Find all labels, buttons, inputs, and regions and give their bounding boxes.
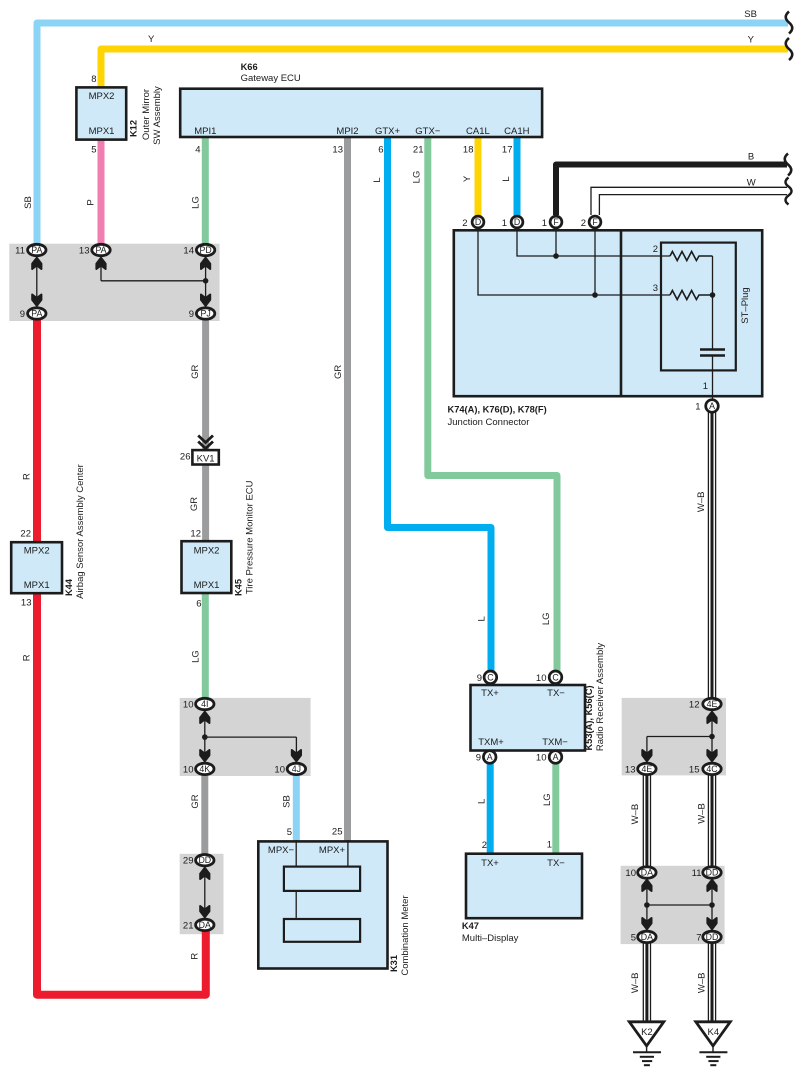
svg-text:LG: LG bbox=[542, 793, 553, 806]
svg-text:25: 25 bbox=[332, 827, 343, 838]
svg-text:DA: DA bbox=[641, 868, 653, 878]
connector ovals band C bbox=[196, 855, 214, 931]
capacitor bbox=[700, 348, 725, 350]
svg-text:TX+: TX+ bbox=[481, 858, 499, 869]
svg-text:2: 2 bbox=[653, 244, 658, 255]
svg-text:Combination Meter: Combination Meter bbox=[400, 895, 411, 975]
svg-text:K47: K47 bbox=[462, 921, 479, 931]
svg-text:Tire Pressure Monitor ECU: Tire Pressure Monitor ECU bbox=[245, 480, 256, 594]
svg-text:TXM+: TXM+ bbox=[478, 737, 504, 748]
svg-text:1: 1 bbox=[703, 381, 708, 392]
connector band E (DA/DD) bbox=[621, 866, 725, 944]
wire L (CA1H to 1D) bbox=[514, 137, 521, 217]
svg-text:B: B bbox=[748, 152, 754, 163]
divider bbox=[620, 230, 623, 396]
svg-text:D: D bbox=[475, 217, 481, 227]
svg-text:11: 11 bbox=[15, 246, 25, 257]
svg-text:LG: LG bbox=[191, 650, 202, 663]
svg-text:1: 1 bbox=[547, 840, 552, 851]
svg-text:4E: 4E bbox=[707, 699, 718, 709]
wire W-B (13 4E to 10 DA) bbox=[643, 774, 650, 868]
wire W-B (5 DA to ground K2) bbox=[643, 942, 650, 1022]
svg-text:10: 10 bbox=[183, 764, 194, 775]
svg-text:L: L bbox=[372, 177, 383, 182]
svg-text:R: R bbox=[189, 953, 200, 960]
svg-text:10: 10 bbox=[625, 868, 636, 879]
svg-text:6: 6 bbox=[378, 145, 383, 156]
ground K2 bbox=[629, 1022, 664, 1065]
svg-text:GR: GR bbox=[333, 365, 344, 379]
svg-text:2: 2 bbox=[462, 218, 467, 229]
svg-text:LG: LG bbox=[412, 171, 423, 184]
wire R (9PA to K44 pin22) bbox=[33, 318, 41, 542]
svg-text:4E: 4E bbox=[642, 764, 653, 774]
svg-text:MPX−: MPX− bbox=[268, 845, 295, 856]
svg-text:K4: K4 bbox=[707, 1027, 719, 1038]
connector ovals band D bbox=[638, 698, 722, 774]
resistor row3 bbox=[670, 291, 713, 300]
svg-text:13: 13 bbox=[625, 764, 636, 775]
wire W-B (1A to 12 4E) bbox=[708, 412, 715, 700]
link arrows band D: 12 4E to 13 4E / 15 4C bbox=[642, 712, 717, 762]
svg-text:9: 9 bbox=[477, 673, 482, 684]
svg-text:MPI2: MPI2 bbox=[336, 126, 358, 137]
svg-text:K45: K45 bbox=[234, 579, 244, 596]
svg-text:4I: 4I bbox=[201, 699, 208, 709]
svg-text:L: L bbox=[476, 799, 487, 804]
connector circles D/F on junction box bbox=[472, 216, 601, 228]
svg-text:21: 21 bbox=[183, 920, 194, 931]
link arrows band B: 4I to 4K and 4J bbox=[200, 712, 301, 762]
svg-text:9: 9 bbox=[189, 309, 194, 320]
svg-text:22: 22 bbox=[20, 529, 31, 540]
svg-text:7: 7 bbox=[696, 932, 701, 943]
svg-text:Gateway ECU: Gateway ECU bbox=[241, 73, 301, 84]
svg-text:K2: K2 bbox=[641, 1027, 653, 1038]
svg-text:2: 2 bbox=[482, 840, 487, 851]
svg-text:2: 2 bbox=[581, 218, 586, 229]
internal wire row2 (D1,F1 to resistor) bbox=[517, 228, 670, 256]
svg-text:L: L bbox=[501, 176, 512, 181]
wire B (1F to right break) bbox=[556, 165, 787, 216]
svg-text:K74(A), K76(D), K78(F): K74(A), K76(D), K78(F) bbox=[448, 405, 547, 415]
box K47 Multi-Display bbox=[466, 854, 582, 919]
svg-text:Airbag Sensor Assembly Center: Airbag Sensor Assembly Center bbox=[75, 464, 86, 599]
svg-text:TX−: TX− bbox=[547, 688, 565, 699]
svg-text:CA1L: CA1L bbox=[466, 126, 490, 137]
svg-text:MPX2: MPX2 bbox=[24, 546, 50, 557]
connector band C (DD/DA) bbox=[180, 854, 224, 934]
box K45 Tire Pressure Monitor ECU bbox=[182, 541, 232, 593]
connector KV1 bbox=[192, 450, 218, 464]
svg-text:MPX1: MPX1 bbox=[194, 580, 220, 591]
svg-text:DD: DD bbox=[706, 868, 719, 878]
connector band D (4E/4C) bbox=[622, 698, 726, 776]
connector circles C/A on radio box bbox=[483, 671, 561, 763]
svg-text:GR: GR bbox=[190, 365, 201, 379]
wire Y (CA1L to 2D) bbox=[475, 137, 482, 217]
svg-text:W–B: W–B bbox=[696, 492, 707, 513]
svg-text:3: 3 bbox=[653, 283, 658, 294]
link arrows band A: 14PD to 9PJ bbox=[201, 258, 210, 307]
svg-text:W–B: W–B bbox=[697, 973, 708, 994]
svg-text:GTX−: GTX− bbox=[415, 126, 441, 137]
svg-text:21: 21 bbox=[413, 145, 424, 156]
svg-text:SB: SB bbox=[744, 9, 757, 20]
svg-text:MPI1: MPI1 bbox=[194, 126, 216, 137]
svg-text:Junction Connector: Junction Connector bbox=[448, 417, 530, 428]
svg-text:18: 18 bbox=[463, 145, 474, 156]
svg-text:K31: K31 bbox=[389, 955, 399, 972]
svg-text:13: 13 bbox=[79, 246, 90, 257]
svg-text:5: 5 bbox=[91, 145, 96, 156]
internal wire row3 (D2,F2 to resistor) bbox=[478, 228, 670, 295]
svg-text:8: 8 bbox=[91, 74, 96, 85]
svg-text:12: 12 bbox=[190, 529, 201, 540]
svg-text:PA: PA bbox=[95, 245, 106, 255]
wire GR (9PJ to KV1) bbox=[202, 318, 209, 452]
svg-text:GTX+: GTX+ bbox=[375, 126, 401, 137]
wire L (GTX+ to 9C) bbox=[388, 137, 492, 673]
svg-text:29: 29 bbox=[183, 856, 194, 867]
svg-text:PD: PD bbox=[199, 245, 211, 255]
svg-text:12: 12 bbox=[689, 700, 700, 711]
wire LG (10A to K47 pin1) bbox=[552, 763, 559, 855]
break squiggle Y bbox=[786, 38, 793, 60]
svg-text:4: 4 bbox=[195, 145, 200, 156]
svg-text:1: 1 bbox=[502, 218, 507, 229]
svg-text:W: W bbox=[747, 178, 756, 189]
link arrows band C: 29DD to 21DA bbox=[200, 868, 209, 918]
svg-text:17: 17 bbox=[502, 145, 513, 156]
svg-text:10: 10 bbox=[536, 753, 547, 764]
wire P (K12 to 13PA) bbox=[98, 140, 105, 246]
svg-text:LG: LG bbox=[191, 196, 202, 209]
svg-text:ST–Plug: ST–Plug bbox=[740, 287, 751, 323]
svg-text:TX+: TX+ bbox=[481, 688, 499, 699]
wire Y top bbox=[101, 49, 788, 88]
svg-text:K12: K12 bbox=[129, 120, 139, 137]
wire GR (MPI2 to K31 pin25) bbox=[344, 137, 351, 842]
svg-text:DD: DD bbox=[198, 855, 211, 865]
connector ovals band A bbox=[28, 244, 215, 319]
svg-text:1: 1 bbox=[542, 218, 547, 229]
vertical bus to capacitor bbox=[712, 256, 714, 349]
svg-text:Y: Y bbox=[462, 175, 473, 182]
svg-text:26: 26 bbox=[180, 452, 191, 463]
svg-text:Y: Y bbox=[148, 34, 155, 45]
svg-text:10: 10 bbox=[183, 700, 194, 711]
svg-text:C: C bbox=[552, 672, 559, 682]
svg-text:P: P bbox=[86, 199, 97, 205]
box K66 Gateway ECU bbox=[180, 89, 542, 137]
svg-text:SW Assembly: SW Assembly bbox=[152, 86, 163, 145]
svg-text:W–B: W–B bbox=[630, 804, 641, 825]
link arrows band A: 11PA to 9PA bbox=[32, 258, 41, 307]
svg-text:14: 14 bbox=[183, 246, 194, 257]
svg-text:MPX1: MPX1 bbox=[24, 580, 50, 591]
svg-text:10: 10 bbox=[536, 673, 547, 684]
box K53 Radio Receiver Assembly bbox=[471, 685, 586, 751]
svg-text:5: 5 bbox=[631, 932, 636, 943]
svg-text:DD: DD bbox=[706, 932, 719, 942]
svg-text:L: L bbox=[477, 616, 488, 621]
link arrows band A: 13PA to node on PD line bbox=[96, 258, 208, 284]
svg-text:13: 13 bbox=[332, 145, 343, 156]
svg-text:D: D bbox=[514, 217, 520, 227]
box K44 Airbag Sensor Assembly Center bbox=[11, 542, 62, 593]
svg-text:TXM−: TXM− bbox=[542, 737, 568, 748]
wire SB (4J to K31 pin5) bbox=[293, 775, 300, 842]
svg-text:LG: LG bbox=[541, 612, 552, 625]
ground K4 bbox=[696, 1022, 731, 1065]
svg-text:R: R bbox=[21, 473, 32, 480]
wire LG (K45 pin6 to 4I) bbox=[202, 593, 209, 700]
svg-text:MPX2: MPX2 bbox=[194, 546, 220, 557]
connector band B (4I/4K/4J) bbox=[180, 698, 311, 776]
svg-text:9: 9 bbox=[20, 309, 25, 320]
svg-text:W–B: W–B bbox=[697, 803, 708, 824]
svg-text:Outer Mirror: Outer Mirror bbox=[141, 89, 152, 140]
svg-text:A: A bbox=[709, 401, 715, 411]
connector ovals band E bbox=[638, 867, 722, 943]
svg-text:R: R bbox=[21, 654, 32, 661]
svg-text:SB: SB bbox=[282, 795, 293, 808]
connector circle 1A below junction box bbox=[706, 400, 719, 413]
wire GR (KV1 to K45 pin12) bbox=[202, 463, 209, 542]
svg-text:A: A bbox=[487, 752, 493, 762]
svg-text:GR: GR bbox=[190, 794, 201, 808]
svg-text:F: F bbox=[553, 217, 559, 227]
svg-text:W–B: W–B bbox=[630, 973, 641, 994]
svg-text:1: 1 bbox=[695, 402, 700, 413]
box K12 Outer Mirror SW Assembly bbox=[76, 87, 126, 139]
wire LG (GTX- to 10C) bbox=[428, 137, 557, 673]
svg-text:CA1H: CA1H bbox=[504, 126, 529, 137]
svg-text:11: 11 bbox=[692, 868, 702, 879]
box K31 Combination Meter bbox=[258, 840, 387, 969]
svg-text:K44: K44 bbox=[64, 578, 74, 596]
svg-text:K53(A), K56(C): K53(A), K56(C) bbox=[584, 685, 594, 750]
ST-Plug inner box bbox=[661, 243, 736, 371]
svg-text:15: 15 bbox=[689, 764, 700, 775]
connector ovals band B bbox=[196, 698, 306, 774]
svg-text:4J: 4J bbox=[292, 764, 301, 774]
svg-text:Radio Receiver Assembly: Radio Receiver Assembly bbox=[595, 643, 606, 751]
svg-text:PJ: PJ bbox=[200, 309, 210, 319]
wire L (9A to K47 pin2) bbox=[487, 763, 494, 855]
resistor row2 bbox=[670, 252, 713, 261]
svg-text:9: 9 bbox=[476, 753, 481, 764]
wire W-B (15 4C to 11 DD) bbox=[708, 774, 715, 868]
svg-text:6: 6 bbox=[196, 599, 201, 610]
wire LG (MPI1 to 14PD) bbox=[202, 137, 209, 246]
wire SB top bbox=[37, 23, 788, 246]
svg-text:SB: SB bbox=[23, 196, 34, 209]
svg-text:10: 10 bbox=[274, 764, 285, 775]
svg-text:DA: DA bbox=[199, 920, 211, 930]
svg-text:KV1: KV1 bbox=[197, 454, 215, 465]
wire W-B (7 DD to ground K4) bbox=[708, 942, 715, 1022]
svg-text:GR: GR bbox=[189, 497, 200, 511]
svg-text:K66: K66 bbox=[241, 62, 258, 72]
wire R (K44 pin13 to 21DA) bbox=[37, 593, 206, 995]
svg-text:C: C bbox=[487, 672, 494, 682]
svg-text:4C: 4C bbox=[706, 764, 718, 774]
svg-text:Y: Y bbox=[748, 34, 755, 45]
svg-text:MPX+: MPX+ bbox=[319, 845, 346, 856]
svg-text:MPX2: MPX2 bbox=[89, 91, 115, 102]
svg-text:Multi–Display: Multi–Display bbox=[462, 933, 519, 944]
link arrows band E: 10DA/11DD to 5DA/7DD bbox=[642, 880, 717, 930]
break squiggle B bbox=[785, 154, 792, 176]
svg-text:5: 5 bbox=[287, 827, 292, 838]
svg-text:PA: PA bbox=[31, 309, 42, 319]
svg-text:TX−: TX− bbox=[547, 858, 565, 869]
connector band A (PA/PD/PJ) bbox=[9, 244, 219, 321]
svg-text:13: 13 bbox=[21, 598, 32, 609]
svg-text:A: A bbox=[553, 752, 559, 762]
svg-text:4K: 4K bbox=[199, 764, 210, 774]
svg-text:MPX1: MPX1 bbox=[89, 126, 115, 137]
break squiggle SB bbox=[786, 12, 793, 34]
break squiggle W bbox=[786, 178, 792, 205]
wire GR (4K to 29DD) bbox=[201, 775, 208, 856]
svg-text:F: F bbox=[592, 217, 598, 227]
svg-text:DA: DA bbox=[641, 932, 653, 942]
wire W (2F to right break, outlined white wire) bbox=[591, 187, 787, 215]
svg-text:PA: PA bbox=[31, 245, 42, 255]
box K74/K76/K78 Junction Connector bbox=[454, 228, 762, 400]
shield chevrons above KV1 bbox=[198, 436, 213, 443]
